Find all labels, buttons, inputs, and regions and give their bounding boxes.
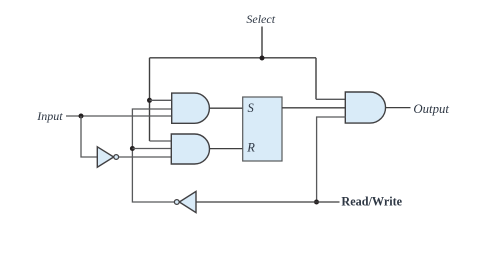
wire read-write vertical to AND3 input 3 [317, 117, 346, 202]
svg-text:Output: Output [413, 102, 449, 116]
latch U1 box [243, 97, 282, 161]
svg-text:Read/Write: Read/Write [341, 195, 402, 209]
wire select horizontal bus [150, 57, 317, 59]
wire input horizontal to AND1 input 3 [66, 115, 173, 117]
junction input [79, 114, 84, 119]
junction read-write-bar to AND2 [130, 146, 135, 151]
wire read-write-bar to AND2 input 2 [132, 148, 173, 150]
wire read-write-bar vertical [132, 109, 174, 202]
wire select to AND2 input 1 [150, 140, 174, 142]
junction select-bus [260, 56, 265, 61]
wire select right vertical [315, 58, 317, 100]
wire AND1 output to S [209, 107, 243, 109]
wire AND3 output [386, 107, 411, 109]
and-gate A1 [172, 93, 210, 123]
wire read-write horizontal [196, 201, 340, 203]
wire select left vertical [149, 58, 151, 141]
wire AND2 output to R [210, 148, 244, 150]
wire latch output to AND3 input 2 [282, 107, 346, 109]
inverter G2 triangle [179, 191, 196, 212]
svg-text:Select: Select [246, 12, 275, 26]
wire select to AND3 input 1 [316, 98, 346, 100]
inverter G1 triangle [97, 147, 113, 167]
wire input drop to inverter [81, 116, 98, 157]
svg-text:Input: Input [36, 109, 63, 123]
svg-text:S: S [248, 101, 255, 115]
wire select to AND1 input 1 [150, 99, 174, 101]
inverter G1 bubble [114, 155, 119, 160]
junction select to AND1 [147, 98, 152, 103]
svg-text:R: R [246, 140, 255, 154]
wire select vertical drop [261, 27, 263, 58]
and-gate A3 [345, 92, 385, 123]
wire inverter G1 output to AND2 input 3 [119, 156, 173, 158]
inverter G2 bubble [174, 200, 179, 205]
junction read-write [314, 200, 319, 205]
and-gate A2 [171, 134, 209, 164]
